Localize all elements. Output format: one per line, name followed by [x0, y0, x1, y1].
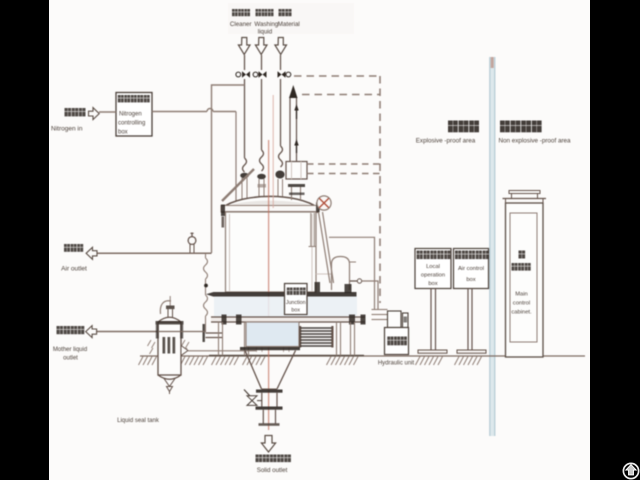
support ladder — [319, 212, 334, 283]
label: mother liquid outlet (Chinese) — [57, 326, 85, 334]
svg-text:box: box — [466, 277, 475, 283]
wire: arrow to nitrogen box — [99, 111, 116, 113]
bearing housing strip — [214, 297, 357, 317]
mother liquid arrow — [86, 326, 97, 338]
wire: vertical riser to cleaner line — [212, 85, 245, 253]
svg-text:Cleaner: Cleaner — [230, 21, 252, 28]
label: Air outlet (English) — [61, 266, 87, 273]
discharge pipe lower — [259, 410, 280, 426]
wire: pipes into hydraulic unit — [372, 310, 388, 320]
nitrogen inlet arrow — [89, 108, 100, 120]
svg-text:Washing: Washing — [254, 21, 278, 28]
centrifuge casing body — [226, 212, 333, 292]
label: Nitrogen in (English) — [51, 126, 83, 133]
air outlet arrow — [86, 247, 97, 259]
label: Material (English) — [278, 21, 300, 28]
sub-base band — [211, 315, 366, 325]
air control box stand — [457, 289, 486, 354]
bearing box — [246, 322, 299, 347]
hydraulic pump motors — [388, 311, 409, 328]
svg-text:cabinet.: cabinet. — [511, 310, 532, 316]
air control box — [454, 249, 489, 289]
svg-text:Explosive -proof area: Explosive -proof area — [416, 138, 476, 145]
hydraulic unit box — [385, 328, 409, 355]
label: Washing liquid (Chinese) — [256, 9, 274, 16]
svg-text:Air outlet: Air outlet — [61, 266, 87, 273]
label: solid outlet (Chinese) — [256, 455, 291, 463]
svg-text:box: box — [118, 130, 128, 136]
wire: hydraulic pipe 1 — [329, 237, 375, 309]
feed centre line — [272, 95, 274, 208]
motor with cooling fins — [299, 326, 334, 348]
svg-text:Air control: Air control — [458, 266, 484, 272]
dome support strut — [222, 169, 254, 201]
dashed control line pair — [307, 163, 380, 165]
explosive-proof boundary line — [490, 57, 496, 436]
svg-text:Hydraulic unit: Hydraulic unit — [378, 361, 415, 367]
svg-text:Liquid seal tank: Liquid seal tank — [117, 418, 160, 424]
svg-text:Nitrogen: Nitrogen — [119, 112, 142, 118]
pale wash behind top labels — [228, 3, 354, 34]
wire: air outlet line — [98, 252, 212, 254]
flexible drain hose — [204, 254, 208, 332]
label: Non explosive -proof area — [498, 138, 571, 145]
breather valve on air line — [188, 233, 196, 253]
feed pipe 1 (wire) — [243, 55, 247, 172]
svg-text:liquid: liquid — [258, 29, 273, 36]
label: explosive-proof area (Chinese) — [448, 121, 479, 133]
svg-text:Material: Material — [278, 21, 300, 28]
svg-text:control: control — [513, 301, 530, 307]
discharge pipe upper — [262, 393, 277, 407]
wire: mother liquid line — [97, 331, 158, 333]
column valve body — [286, 162, 307, 201]
label: Cleaner (Chinese) — [232, 9, 250, 16]
left black sidebar — [0, 0, 49, 480]
label: Washing liquid (English) — [254, 21, 278, 36]
hose fitting 3 — [275, 171, 284, 200]
wire: machine to flange pipe — [206, 333, 223, 338]
hose fitting 2 — [257, 174, 266, 205]
tank internal marks — [148, 337, 190, 354]
machine centre line — [268, 140, 270, 430]
svg-text:operation: operation — [421, 273, 445, 279]
svg-text:Non explosive -proof area: Non explosive -proof area — [498, 138, 571, 145]
label: Mother liquid outlet (English) — [53, 347, 87, 362]
svg-text:box: box — [428, 281, 437, 287]
ground line — [140, 355, 585, 357]
base plate — [206, 292, 357, 297]
liquid seal tank — [158, 317, 181, 394]
tank top vent — [160, 296, 174, 318]
svg-text:box: box — [291, 308, 300, 314]
local operation box stand — [418, 289, 447, 354]
dashed control line second — [302, 94, 380, 96]
valve V3 on material line — [278, 71, 291, 77]
dome flange band — [221, 203, 320, 228]
cone flange 1 — [256, 390, 283, 393]
centrifuge dome — [222, 196, 318, 208]
label: Solid outlet (English) — [257, 467, 288, 474]
wire: mother liquid line across tank — [158, 331, 206, 333]
junction box — [285, 284, 308, 315]
back-to-top button — [623, 463, 638, 478]
nitrogen controlling box — [116, 93, 152, 137]
main control cabinet — [503, 191, 547, 358]
valve V1 on cleaner line — [236, 71, 250, 77]
tank outlet nozzle — [181, 346, 257, 356]
wire: hydraulic pipe 2 — [350, 279, 378, 310]
label: Liquid seal tank — [117, 418, 160, 424]
label: non-explosive-proof area (Chinese) — [500, 121, 542, 133]
label: Cleaner (English) — [230, 21, 252, 28]
wire: nitrogen box to machine — [152, 109, 239, 289]
lift column — [289, 85, 299, 162]
svg-text:Local: Local — [426, 264, 440, 270]
ground hatching — [139, 357, 482, 366]
svg-text:Solid outlet: Solid outlet — [257, 467, 288, 474]
tank top weld band — [156, 321, 184, 325]
right black sidebar — [590, 0, 640, 480]
svg-text:controlling: controlling — [118, 121, 145, 127]
dashed control line vertical — [379, 76, 381, 303]
machine legs — [219, 322, 355, 356]
label: nitrogen in (Chinese) — [65, 108, 86, 116]
discharge cone — [245, 351, 296, 390]
valve V2 on washing line — [253, 71, 266, 77]
feed arrow 2 (washing liquid) — [255, 38, 267, 55]
dashed control line top — [294, 75, 380, 77]
discharge chute housing — [315, 257, 357, 294]
label: Hydraulic unit — [378, 361, 415, 367]
label: Material (Chinese) — [279, 9, 292, 16]
svg-text:Mother liquid: Mother liquid — [53, 347, 87, 353]
solid outlet arrow — [261, 436, 275, 453]
feed arrow 3 (material) — [275, 38, 287, 55]
svg-text:Nitrogen in: Nitrogen in — [51, 126, 83, 133]
label: Explosive -proof area — [416, 138, 476, 145]
cone flange 2 — [256, 407, 283, 410]
feed pipe 2 (wire) — [260, 55, 264, 171]
hose fitting 1 — [240, 173, 249, 203]
drain pipe flange — [203, 324, 205, 342]
svg-text:Main: Main — [515, 292, 528, 298]
label: air outlet (Chinese) — [64, 244, 83, 252]
svg-text:outlet: outlet — [63, 356, 78, 362]
local operation box — [415, 249, 451, 289]
feed arrow 1 (cleaner) — [238, 38, 250, 55]
lid lifting handwheel — [317, 196, 331, 210]
discharge butterfly valve — [244, 390, 262, 406]
feed pipe 3 (wire) — [279, 55, 283, 167]
svg-text:Junction: Junction — [286, 300, 306, 306]
cone top bar — [240, 347, 300, 350]
